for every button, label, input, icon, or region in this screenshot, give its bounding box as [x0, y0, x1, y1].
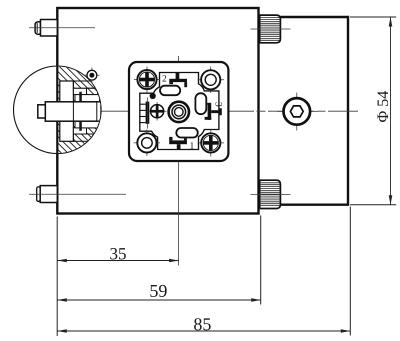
- pin contact 3: [205, 103, 222, 120]
- screw BR (phillips): [198, 130, 225, 157]
- centerline top-right plug: [251, 28, 291, 30]
- section detail circle: [14, 66, 102, 154]
- pin contact 2: [169, 73, 187, 88]
- dimension extension lines: [56, 217, 58, 337]
- screw TL (phillips): [134, 67, 160, 93]
- slot bottom: [176, 128, 198, 138]
- centerline bottom-left plug: [29, 193, 126, 195]
- right solenoid body: [280, 17, 348, 205]
- knurled plug bottom-right: [260, 180, 281, 208]
- knurled plug top-right: [260, 15, 281, 43]
- pin contact 1: [169, 137, 187, 150]
- slot top: [160, 86, 180, 96]
- flange plate: [60, 81, 74, 141]
- center ground pin rings: [169, 102, 189, 122]
- connector inner boundary: [140, 73, 219, 150]
- body edge line in detail: [56, 65, 58, 155]
- centerline top-left plug: [29, 27, 95, 29]
- screw hole BL: [134, 130, 161, 157]
- locating dot: [150, 93, 156, 99]
- shaft: [45, 102, 101, 121]
- centerline bottom-right plug: [251, 194, 291, 196]
- dimension 35: [57, 260, 178, 262]
- label 1: [190, 142, 193, 148]
- vent hole with dot: [85, 68, 100, 84]
- left adjusting screw side view: [140, 98, 149, 129]
- hatched section area: [57, 65, 102, 155]
- slot right: [195, 93, 206, 114]
- left phillips screw: [148, 102, 167, 121]
- main horizontal centerline: [28, 110, 358, 112]
- seal stack upper: [73, 81, 95, 88]
- plug bottom-left: [37, 186, 58, 203]
- label 3: [216, 102, 222, 106]
- socket head screw on solenoid: [277, 93, 317, 131]
- plug top-left: [35, 20, 57, 37]
- seal stack lower: [73, 134, 95, 141]
- dimension 85: [57, 330, 350, 332]
- shaft end cap: [38, 105, 46, 118]
- main valve body: [57, 8, 258, 214]
- connector outer housing: [129, 62, 228, 161]
- dimension 59: [57, 299, 260, 301]
- screw hole TR: [198, 67, 225, 94]
- dimension phi54: [350, 16, 396, 18]
- connector vertical centerline: [178, 56, 180, 266]
- label 2: [162, 75, 166, 81]
